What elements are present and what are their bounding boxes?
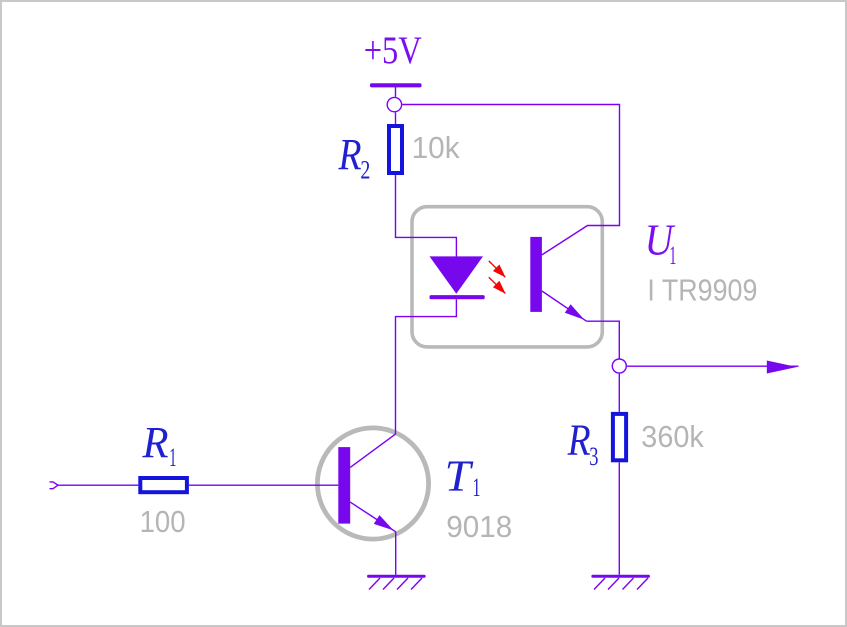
svg-text:R: R (338, 130, 362, 179)
svg-text:+5V: +5V (364, 29, 422, 72)
svg-text:T: T (445, 451, 475, 500)
svg-text:1: 1 (169, 442, 176, 472)
svg-text:100: 100 (140, 504, 186, 539)
svg-text:1: 1 (473, 472, 481, 502)
svg-text:R: R (567, 416, 591, 465)
svg-text:2: 2 (360, 155, 370, 185)
svg-text:9018: 9018 (446, 509, 512, 544)
svg-text:3: 3 (589, 441, 598, 471)
svg-text:10k: 10k (412, 130, 460, 165)
svg-text:I TR9909: I TR9909 (647, 273, 757, 308)
svg-text:360k: 360k (641, 419, 704, 454)
svg-text:1: 1 (669, 240, 676, 270)
svg-text:R: R (142, 418, 169, 467)
